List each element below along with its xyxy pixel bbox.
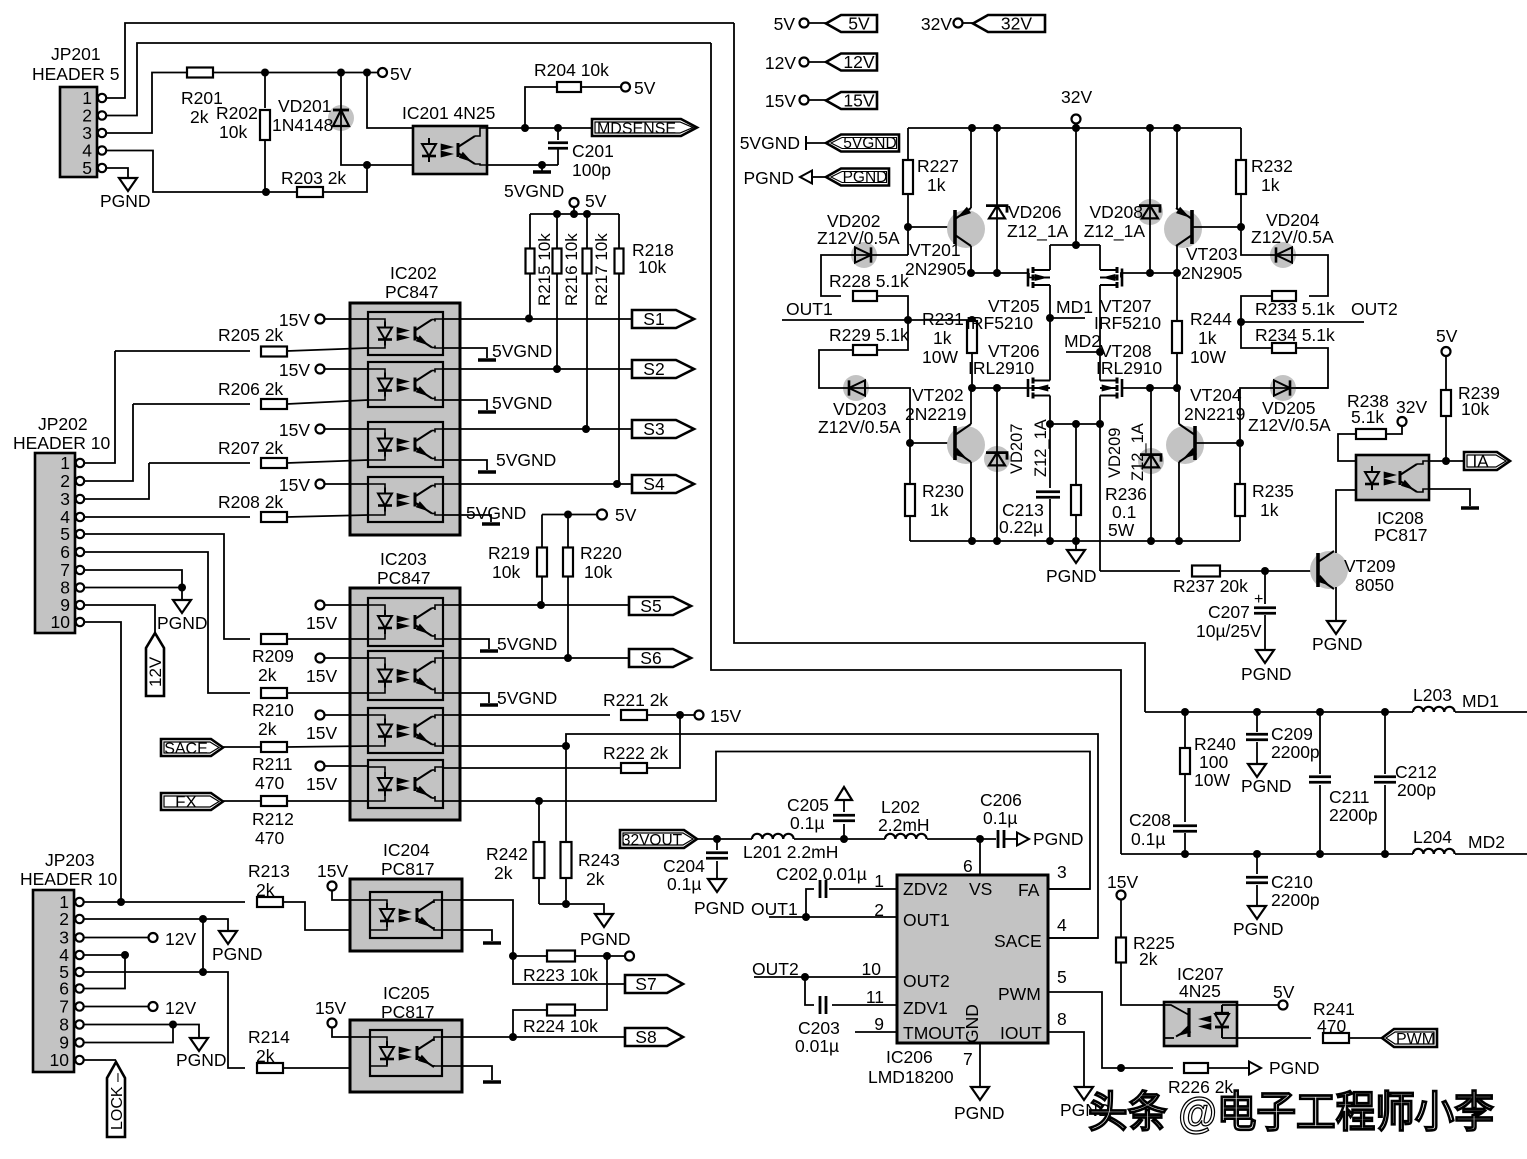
wire JP203 pin5 to R214 xyxy=(84,972,245,1068)
resistor R244 xyxy=(1176,273,1178,321)
wire JP201 pin3 to R201 xyxy=(106,73,188,134)
flag MDSENSE xyxy=(592,119,697,136)
svg-text:R213: R213 xyxy=(248,861,290,881)
wire JP203 pin1 to R213 xyxy=(84,901,245,903)
svg-text:C207: C207 xyxy=(1208,602,1250,622)
resistor R233 xyxy=(1272,291,1296,301)
node VT201 base xyxy=(904,223,912,231)
transistor VT205 IRF5210 mosfet xyxy=(1027,269,1030,287)
resistor R224 xyxy=(547,1005,575,1016)
svg-text:PGND: PGND xyxy=(1046,566,1097,586)
flag 12V vertical xyxy=(146,633,164,696)
svg-text:C205: C205 xyxy=(787,795,829,815)
terminal 15V IC203 ch3 xyxy=(316,711,325,720)
svg-text:S8: S8 xyxy=(635,1027,656,1047)
ground PGND C209 xyxy=(1256,762,1258,764)
svg-text:R242: R242 xyxy=(486,844,528,864)
wire after L201 xyxy=(794,838,885,840)
svg-text:15V: 15V xyxy=(306,723,337,743)
svg-text:PC847: PC847 xyxy=(385,282,439,302)
svg-text:2k: 2k xyxy=(256,880,275,900)
svg-text:5VGND: 5VGND xyxy=(740,133,800,153)
svg-text:10µ/25V: 10µ/25V xyxy=(1196,621,1262,641)
svg-text:5VGND: 5VGND xyxy=(497,688,557,708)
diode VD203 Z12V/0.5A xyxy=(843,375,869,401)
resistor R217 xyxy=(586,214,588,249)
svg-text:OUT2: OUT2 xyxy=(903,971,950,991)
svg-text:5V: 5V xyxy=(774,14,796,34)
ground PGND R242 R243 xyxy=(603,912,605,914)
wire OUT1 label line xyxy=(769,916,897,918)
wire IC208 out xyxy=(1429,460,1464,462)
svg-text:4N25: 4N25 xyxy=(1179,981,1221,1001)
svg-text:R210: R210 xyxy=(252,700,294,720)
wire OUT2 line xyxy=(1241,321,1364,323)
resistor R216 xyxy=(556,214,558,249)
svg-text:32V: 32V xyxy=(1001,13,1032,33)
svg-text:R222 2k: R222 2k xyxy=(603,743,668,763)
svg-text:FX: FX xyxy=(175,793,197,812)
svg-text:VD209: VD209 xyxy=(1106,428,1124,478)
ground IC204 emitter xyxy=(442,930,492,941)
wire VT208 source down xyxy=(1099,396,1101,425)
svg-text:R220: R220 xyxy=(580,543,622,563)
wire PWM pin5 xyxy=(1048,992,1121,1068)
svg-text:10k: 10k xyxy=(584,562,612,582)
svg-text:12V: 12V xyxy=(843,52,874,72)
svg-text:R229 5.1k: R229 5.1k xyxy=(829,325,909,345)
svg-text:R243: R243 xyxy=(578,850,620,870)
resistor R227 xyxy=(907,128,909,160)
svg-text:OUT1: OUT1 xyxy=(903,910,950,930)
svg-text:VT201: VT201 xyxy=(909,240,961,260)
wire lower gate rail left xyxy=(972,387,1029,389)
wire 32VOUT line xyxy=(697,838,752,840)
svg-text:PGND: PGND xyxy=(1269,1058,1320,1078)
diode VD201 1N4148 xyxy=(328,105,354,131)
wire bridge source rail xyxy=(1050,423,1100,425)
svg-text:VD206: VD206 xyxy=(1008,202,1062,222)
svg-text:S7: S7 xyxy=(635,974,656,994)
svg-text:Z12V/0.5A: Z12V/0.5A xyxy=(818,417,901,437)
wire S3 line xyxy=(443,428,632,430)
svg-text:5: 5 xyxy=(1057,967,1067,987)
svg-text:9: 9 xyxy=(874,1014,884,1034)
wire upper gate rail left xyxy=(971,272,1029,274)
svg-text:C203: C203 xyxy=(798,1018,840,1038)
svg-text:R202: R202 xyxy=(216,103,258,123)
svg-text:11: 11 xyxy=(866,987,884,1007)
svg-text:5V: 5V xyxy=(1436,326,1458,346)
resistor R212 xyxy=(223,800,261,802)
flag S7 xyxy=(625,975,683,993)
wire SACE output jog xyxy=(443,734,1098,938)
capacitor C209 xyxy=(1256,712,1258,732)
svg-text:PGND: PGND xyxy=(176,1050,227,1070)
svg-text:15V: 15V xyxy=(315,998,346,1018)
wire bridge top bus xyxy=(1050,244,1100,246)
terminal 5V pullup bank xyxy=(570,198,579,207)
resistor R221 xyxy=(621,710,647,720)
svg-text:R212: R212 xyxy=(252,809,294,829)
svg-text:OUT1: OUT1 xyxy=(751,899,798,919)
svg-text:R230: R230 xyxy=(922,481,964,501)
wire lower gate rail right xyxy=(1121,387,1177,389)
resistor R230 xyxy=(909,443,911,484)
capacitor C212 xyxy=(1384,712,1386,774)
node 5V rail R201 xyxy=(265,72,378,74)
svg-text:7: 7 xyxy=(963,1049,973,1069)
svg-text:0.1µ: 0.1µ xyxy=(790,813,824,833)
ground 5VGND IC202 ch2 xyxy=(443,400,487,410)
wire MD2 column xyxy=(1099,285,1101,381)
svg-text:2: 2 xyxy=(60,471,70,491)
svg-text:10k: 10k xyxy=(1461,399,1489,419)
wire VT204 collector xyxy=(1178,388,1180,424)
flag FX xyxy=(161,793,223,810)
svg-text:2: 2 xyxy=(59,909,69,929)
ground PGND C204 xyxy=(716,877,718,879)
resistor R205 xyxy=(115,350,250,352)
svg-text:R237 20k: R237 20k xyxy=(1173,576,1248,596)
wire IC201 emitter row xyxy=(487,164,558,166)
flag PGND xyxy=(826,169,889,186)
wire VT209 emitter xyxy=(1335,587,1337,619)
svg-text:C201: C201 xyxy=(572,141,614,161)
resistor R218 xyxy=(618,214,620,249)
svg-text:2.2mH: 2.2mH xyxy=(878,815,930,835)
terminal 5V JP201 area xyxy=(378,68,387,77)
transistor VT208 IRL2910 mosfet xyxy=(1121,379,1124,397)
svg-text:PGND: PGND xyxy=(1233,919,1284,939)
ground 5VGND IC202 ch3 xyxy=(443,460,487,470)
resistor R222 xyxy=(621,763,647,773)
node VT203 base xyxy=(1237,223,1245,231)
svg-text:S6: S6 xyxy=(640,648,661,668)
svg-text:PC847: PC847 xyxy=(377,568,431,588)
svg-text:PGND: PGND xyxy=(954,1103,1005,1123)
svg-text:Z12V/0.5A: Z12V/0.5A xyxy=(1248,415,1331,435)
svg-text:2k: 2k xyxy=(1139,949,1158,969)
svg-text:0.1µ: 0.1µ xyxy=(1131,829,1165,849)
terminal 15V IC203 ch1 xyxy=(316,601,325,610)
wire MD2 stub xyxy=(1066,351,1100,353)
svg-text:R223 10k: R223 10k xyxy=(523,965,598,985)
flag 32VOUT xyxy=(620,830,697,848)
flag S3 xyxy=(632,420,694,438)
wire MD1 after L203 xyxy=(1455,711,1527,713)
capacitor C213 xyxy=(1049,424,1051,488)
opto-coupler IC204 PC817 xyxy=(350,879,462,951)
svg-text:S1: S1 xyxy=(643,309,664,329)
svg-text:15V: 15V xyxy=(317,861,348,881)
svg-text:S5: S5 xyxy=(640,596,661,616)
svg-text:MDSENSE: MDSENSE xyxy=(597,121,676,138)
svg-text:R244: R244 xyxy=(1190,309,1232,329)
svg-text:2k: 2k xyxy=(494,863,513,883)
svg-text:R224 10k: R224 10k xyxy=(523,1016,598,1036)
svg-text:5V: 5V xyxy=(615,505,637,525)
svg-text:LMD18200: LMD18200 xyxy=(868,1067,954,1087)
svg-text:12V: 12V xyxy=(165,929,196,949)
svg-text:IC206: IC206 xyxy=(886,1047,933,1067)
wire MD1 route xyxy=(734,23,1145,712)
svg-text:0.1µ: 0.1µ xyxy=(667,874,701,894)
wire VT206 source down xyxy=(1049,396,1051,425)
node VT204 base xyxy=(1236,439,1244,447)
wire IC207 pin4 row xyxy=(1237,1037,1311,1039)
flag S2 xyxy=(632,360,694,378)
wire R242 R243 gnd bus xyxy=(539,904,604,912)
svg-text:VT204: VT204 xyxy=(1190,385,1242,405)
ground 5VGND IC202 ch1 xyxy=(443,348,487,358)
svg-text:JP201: JP201 xyxy=(51,44,101,64)
resistor R203 xyxy=(297,187,323,197)
wire GND pin7 xyxy=(979,1043,981,1085)
svg-text:HEADER 10: HEADER 10 xyxy=(13,433,111,453)
flag 5V xyxy=(826,15,877,32)
svg-text:2k: 2k xyxy=(258,665,277,685)
svg-text:PGND: PGND xyxy=(1312,634,1363,654)
diode VD209 Z12_1A xyxy=(1150,388,1152,541)
capacitor C206 xyxy=(997,830,1000,848)
svg-text:VD201: VD201 xyxy=(278,96,332,116)
svg-text:OUT1: OUT1 xyxy=(786,299,833,319)
wire VT201 emitter to rail xyxy=(970,128,972,208)
wire MD2 out drop xyxy=(1099,424,1101,571)
svg-text:2k: 2k xyxy=(586,869,605,889)
svg-text:OUT2: OUT2 xyxy=(1351,299,1398,319)
svg-text:IC203: IC203 xyxy=(380,549,427,569)
svg-text:PWM: PWM xyxy=(998,984,1041,1004)
svg-text:VT209: VT209 xyxy=(1344,556,1396,576)
resistor R240 xyxy=(1184,712,1186,748)
terminal 15V IC205 xyxy=(328,1019,337,1028)
terminal 15V R221 xyxy=(695,711,704,720)
svg-text:+: + xyxy=(1254,591,1263,608)
wire JP202 pin10 down to JP203 xyxy=(84,622,121,902)
resistor R242 xyxy=(538,801,540,843)
resistor R201 xyxy=(187,68,213,78)
wire VT203 emitter to rail xyxy=(1176,128,1178,208)
svg-text:R228 5.1k: R228 5.1k xyxy=(829,271,909,291)
diode VD204 Z12V/0.5A xyxy=(1241,227,1328,296)
terminal R223 pullup xyxy=(625,952,634,961)
svg-text:R236: R236 xyxy=(1105,484,1147,504)
diode VD208 Z12_1A xyxy=(1149,128,1151,273)
resistor R235 xyxy=(1239,443,1241,484)
svg-text:C208: C208 xyxy=(1129,810,1171,830)
wire JP202 pin1 xyxy=(84,351,115,463)
svg-text:C204: C204 xyxy=(663,856,705,876)
svg-text:VT203: VT203 xyxy=(1186,244,1238,264)
svg-text:PC817: PC817 xyxy=(1374,525,1428,545)
wire VT201 base xyxy=(908,226,955,228)
resistor R241 xyxy=(1323,1033,1349,1043)
node R226 xyxy=(1117,1064,1125,1072)
svg-text:VT202: VT202 xyxy=(912,385,964,405)
svg-text:8050: 8050 xyxy=(1355,575,1394,595)
svg-text:2k: 2k xyxy=(258,719,277,739)
transistor VT209 8050 xyxy=(1310,551,1348,589)
svg-text:R235: R235 xyxy=(1252,481,1294,501)
svg-text:SACE: SACE xyxy=(994,931,1042,951)
wire 32V top rail xyxy=(908,127,1241,129)
svg-text:JP203: JP203 xyxy=(45,850,95,870)
svg-text:MD2: MD2 xyxy=(1064,331,1101,351)
svg-text:PWM: PWM xyxy=(1396,1031,1435,1048)
flag SACE xyxy=(161,739,223,756)
svg-text:0.1µ: 0.1µ xyxy=(983,808,1017,828)
resistor R219 xyxy=(541,515,543,549)
svg-text:IOUT: IOUT xyxy=(1000,1023,1042,1043)
svg-text:5VGND: 5VGND xyxy=(466,503,526,523)
transistor VT202 2N2219 xyxy=(947,426,985,464)
svg-text:10: 10 xyxy=(51,612,71,632)
resistor R208 xyxy=(82,516,250,518)
svg-text:L203: L203 xyxy=(1413,685,1452,705)
diode VD202 Z12V/0.5A xyxy=(907,227,909,255)
svg-text:TMOUT: TMOUT xyxy=(903,1023,966,1043)
transistor VT201 2N2905 xyxy=(947,210,985,248)
svg-text:R233 5.1k: R233 5.1k xyxy=(1255,299,1335,319)
resistor R229 xyxy=(877,320,908,350)
ground PGND bridge xyxy=(1075,541,1077,548)
ground PGND JP203 pin2 xyxy=(227,929,229,931)
svg-text:15V: 15V xyxy=(279,310,310,330)
opto-coupler IC203 PC847 xyxy=(350,588,460,820)
svg-text:2200p: 2200p xyxy=(1271,742,1320,762)
svg-text:R227: R227 xyxy=(917,156,959,176)
flag S8 xyxy=(625,1028,683,1046)
svg-text:0.22µ: 0.22µ xyxy=(999,517,1043,537)
svg-text:3: 3 xyxy=(60,489,70,509)
svg-text:LOCK –: LOCK – xyxy=(109,1073,126,1130)
svg-text:5W: 5W xyxy=(1108,520,1135,540)
inductor L204 xyxy=(1413,849,1455,854)
ground PGND arrow R226 xyxy=(1249,1062,1261,1075)
svg-text:R206 2k: R206 2k xyxy=(218,379,283,399)
wire JP203 pin4 xyxy=(84,954,125,956)
svg-text:1: 1 xyxy=(60,453,70,473)
svg-text:5V: 5V xyxy=(634,78,656,98)
svg-text:L202: L202 xyxy=(881,797,920,817)
wire MD2 filter line xyxy=(1121,853,1413,855)
svg-text:15V: 15V xyxy=(306,774,337,794)
svg-text:15V: 15V xyxy=(279,360,310,380)
svg-text:2N2219: 2N2219 xyxy=(905,404,966,424)
svg-text:32VOUT: 32VOUT xyxy=(622,832,683,849)
svg-text:R221 2k: R221 2k xyxy=(603,690,668,710)
svg-text:5VGND: 5VGND xyxy=(497,634,557,654)
wire JP202 pin5 to R209 xyxy=(84,534,250,639)
svg-text:PGND: PGND xyxy=(1241,776,1292,796)
wire after L202 xyxy=(927,838,996,840)
resistor R204 xyxy=(525,87,557,128)
wire VT209 collector xyxy=(1336,490,1356,553)
wire VT205 source to 32V xyxy=(1049,245,1051,270)
wire JP202 pin3 xyxy=(84,463,149,499)
terminal 5V IC207 xyxy=(1237,1004,1279,1006)
wire JP202 pin9 to 12V flag xyxy=(84,605,155,633)
svg-text:100: 100 xyxy=(1199,752,1228,772)
flag 5VGND xyxy=(826,135,899,152)
svg-text:5VGND: 5VGND xyxy=(504,181,564,201)
wire IC201 pin2 xyxy=(367,164,413,166)
wire MDSENSE line xyxy=(487,127,592,129)
svg-text:2k: 2k xyxy=(256,1046,275,1066)
svg-text:15V: 15V xyxy=(306,666,337,686)
resistor R231 xyxy=(971,320,973,321)
wire R203 row xyxy=(253,191,297,193)
ground PGND C207 xyxy=(1264,648,1266,650)
svg-text:IRL2910: IRL2910 xyxy=(968,358,1034,378)
wire VT201 collector xyxy=(970,246,972,273)
svg-text:IRF5210: IRF5210 xyxy=(1094,313,1161,333)
svg-text:R217 10k: R217 10k xyxy=(592,233,611,306)
ground PGND C210 xyxy=(1256,904,1258,906)
svg-text:2N2905: 2N2905 xyxy=(1181,263,1242,283)
svg-text:C210: C210 xyxy=(1271,872,1313,892)
svg-text:5V: 5V xyxy=(390,64,412,84)
svg-text:R231: R231 xyxy=(922,309,964,329)
svg-text:10: 10 xyxy=(50,1050,70,1070)
transistor VT203 2N2905 xyxy=(1164,210,1202,248)
ground 5VGND IC201 xyxy=(541,165,543,171)
inductor L201 xyxy=(752,834,794,839)
svg-text:1k: 1k xyxy=(1260,500,1279,520)
resistor R210 xyxy=(261,688,287,698)
flag S5 xyxy=(629,597,691,615)
svg-text:2N2905: 2N2905 xyxy=(905,259,966,279)
svg-text:R216 10k: R216 10k xyxy=(562,233,581,306)
wire S4 line xyxy=(443,483,632,485)
capacitor C205 xyxy=(843,824,845,839)
wire R221 line xyxy=(443,714,610,716)
svg-text:PGND: PGND xyxy=(580,929,631,949)
wire JP201 pin2 to MD2 bus xyxy=(106,43,711,116)
terminal 5V R204 xyxy=(621,83,630,92)
svg-text:FA: FA xyxy=(1018,880,1040,900)
header JP203 xyxy=(33,890,74,1072)
wire JP203 pin4 to pin6 join xyxy=(84,955,125,989)
terminal 12V JP203 pin3 xyxy=(84,937,148,939)
svg-text:15V: 15V xyxy=(843,90,874,110)
svg-text:5V: 5V xyxy=(585,191,607,211)
ground PGND IOUT xyxy=(1083,1085,1085,1087)
svg-text:R203 2k: R203 2k xyxy=(281,168,346,188)
svg-text:1k: 1k xyxy=(1198,328,1217,348)
svg-text:0.1: 0.1 xyxy=(1112,502,1136,522)
resistor R206 xyxy=(133,403,250,405)
svg-text:S4: S4 xyxy=(643,474,665,494)
inductor L202 xyxy=(885,834,927,839)
resistor R214 xyxy=(257,1063,283,1073)
node IC201 cathode xyxy=(363,161,371,169)
svg-text:4: 4 xyxy=(1057,915,1067,935)
wire S7 line xyxy=(513,956,625,984)
svg-text:15V: 15V xyxy=(710,706,741,726)
resistor R237 xyxy=(1192,566,1220,577)
svg-text:Z12V/0.5A: Z12V/0.5A xyxy=(817,228,900,248)
svg-text:R214: R214 xyxy=(248,1027,290,1047)
svg-text:2N2219: 2N2219 xyxy=(1184,404,1245,424)
svg-text:Z12_1A: Z12_1A xyxy=(1007,221,1069,242)
svg-text:ZDV2: ZDV2 xyxy=(903,879,948,899)
wire JP202 pin2 xyxy=(84,404,133,481)
resistor R225 xyxy=(1120,900,1122,939)
capacitor C211 xyxy=(1319,712,1321,774)
